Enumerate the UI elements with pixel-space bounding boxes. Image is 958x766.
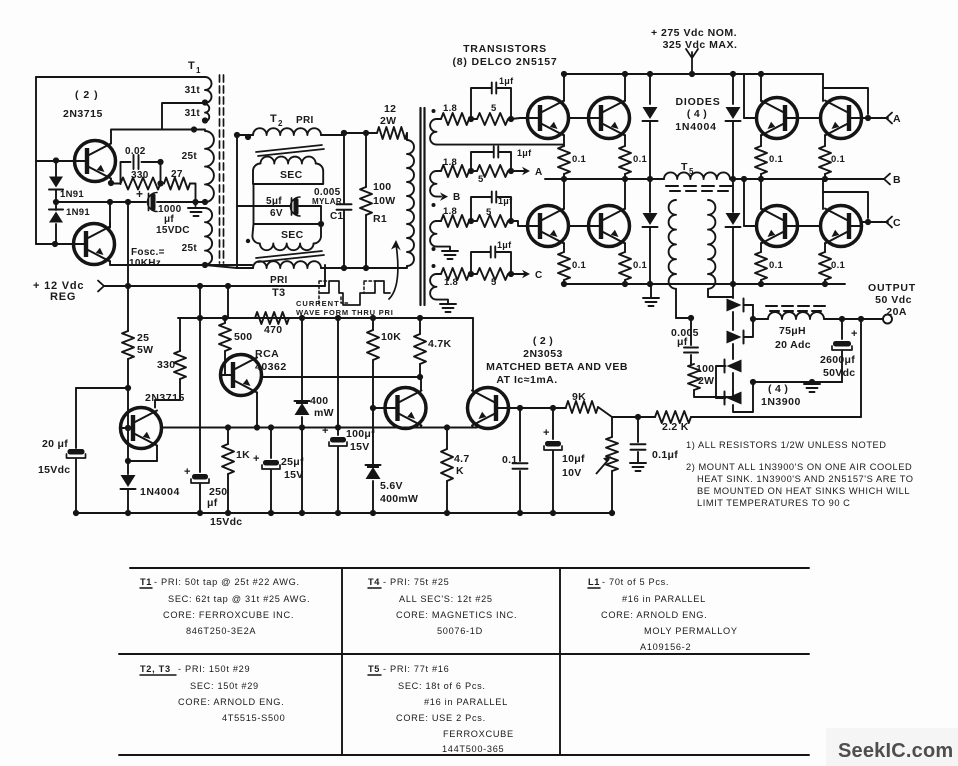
svg-text:ALL SEC'S: 12t #25: ALL SEC'S: 12t #25 [399,594,493,604]
svg-text:2.2 K: 2.2 K [662,421,689,433]
svg-text:K: K [456,465,464,477]
svg-text:0.1: 0.1 [831,260,846,271]
svg-text:+: + [136,187,143,201]
svg-text:SeekIC.com: SeekIC.com [838,740,953,762]
svg-text:12: 12 [384,103,396,115]
svg-text:0.1: 0.1 [572,260,587,271]
svg-text:T3: T3 [272,287,285,299]
svg-text:C: C [893,217,901,229]
svg-text:CURRENT: CURRENT [296,299,340,308]
svg-text:(8) DELCO 2N5157: (8) DELCO 2N5157 [453,56,558,68]
svg-text:5: 5 [486,207,492,218]
svg-text:1N4004: 1N4004 [140,486,180,498]
svg-text:CORE: USE 2 Pcs.: CORE: USE 2 Pcs. [396,713,486,723]
svg-text:0.1: 0.1 [769,154,784,165]
svg-text:( 4 ): ( 4 ) [768,383,788,395]
svg-text:- PRI: 75t #25: - PRI: 75t #25 [383,577,450,587]
svg-text:2W: 2W [380,115,396,127]
svg-text:AT Ic≈1mA.: AT Ic≈1mA. [496,374,557,386]
svg-text:0.1: 0.1 [769,260,784,271]
svg-text:mW: mW [314,407,334,419]
svg-text:1: 1 [196,66,201,75]
svg-text:+: + [322,425,329,437]
svg-text:2600μf: 2600μf [820,354,855,366]
svg-text:+: + [184,466,191,478]
svg-text:0.1μf: 0.1μf [652,449,678,461]
svg-text:10W: 10W [373,195,396,207]
svg-text:25: 25 [137,332,149,344]
svg-text:CORE: ARNOLD ENG.: CORE: ARNOLD ENG. [601,610,707,620]
svg-text:MYLAR: MYLAR [312,197,342,206]
svg-text:2N3053: 2N3053 [523,348,563,360]
svg-text:2W: 2W [698,375,714,387]
svg-text:TRANSISTORS: TRANSISTORS [463,43,547,55]
svg-text:9K: 9K [572,391,586,403]
svg-text:A: A [535,167,543,178]
svg-text:15VDC: 15VDC [156,225,190,236]
svg-text:15Vdc: 15Vdc [38,464,70,476]
svg-text:2N3715: 2N3715 [145,392,185,404]
svg-text:27: 27 [171,169,183,180]
svg-text:T4: T4 [368,577,380,587]
svg-text:1.8: 1.8 [443,157,457,168]
svg-text:SEC: SEC [281,229,304,241]
svg-text:A109156-2: A109156-2 [640,642,691,652]
svg-text:- PRI: 77t #16: - PRI: 77t #16 [383,664,450,674]
svg-text:+: + [253,453,260,465]
svg-text:1) ALL RESISTORS 1/2W UNLESS: 1) ALL RESISTORS 1/2W UNLESS NOTED [686,440,887,450]
svg-text:#16 in PARALLEL: #16 in PARALLEL [622,594,706,604]
svg-text:T5: T5 [368,664,380,674]
svg-text:1N4004: 1N4004 [675,121,717,133]
svg-text:BE MOUNTED ON HEAT SINKS WHICH: BE MOUNTED ON HEAT SINKS WHICH WILL [697,486,910,496]
svg-text:( 4 ): ( 4 ) [687,108,707,120]
svg-text:400mW: 400mW [380,493,418,505]
svg-text:MATCHED BETA AND VEB: MATCHED BETA AND VEB [486,361,628,373]
svg-text:T: T [188,60,195,72]
svg-text:5: 5 [491,277,497,288]
svg-text:CORE: MAGNETICS INC.: CORE: MAGNETICS INC. [396,610,517,620]
svg-text:100μf: 100μf [346,428,375,440]
svg-text:10μf: 10μf [562,453,585,465]
svg-text:REG: REG [50,291,76,303]
svg-text:T: T [270,113,277,125]
svg-text:4T5515-S500: 4T5515-S500 [222,713,285,723]
svg-text:μf: μf [207,497,218,509]
svg-text:0.1: 0.1 [502,454,518,466]
svg-text:B: B [893,174,901,186]
svg-text:50 Vdc: 50 Vdc [875,294,912,306]
svg-text:20 Adc: 20 Adc [775,339,811,351]
svg-text:325 Vdc MAX.: 325 Vdc MAX. [663,39,738,51]
svg-text:25μf: 25μf [281,456,304,468]
svg-text:T2, T3: T2, T3 [140,664,171,674]
svg-text:#16 in PARALLEL: #16 in PARALLEL [424,697,508,707]
svg-text:( 2 ): ( 2 ) [533,335,553,347]
svg-text:5: 5 [491,103,497,114]
svg-text:5: 5 [478,174,484,185]
svg-text:20A: 20A [886,306,907,318]
svg-text:1μf: 1μf [499,76,514,86]
svg-text:1N91: 1N91 [60,189,84,200]
svg-text:DIODES: DIODES [675,96,720,108]
svg-text:T: T [681,161,688,173]
svg-text:R1: R1 [373,213,387,225]
svg-text:470: 470 [264,324,282,336]
svg-text:1N3900: 1N3900 [761,396,801,408]
svg-text:100: 100 [373,181,391,193]
svg-text:4.7K: 4.7K [428,338,451,350]
svg-text:10K: 10K [381,331,401,343]
svg-text:15Vdc: 15Vdc [210,516,242,528]
svg-text:T1: T1 [140,577,152,587]
svg-text:CORE: FERROXCUBE INC.: CORE: FERROXCUBE INC. [163,610,294,620]
svg-text:20 μf: 20 μf [42,438,68,450]
svg-text:+ 275 Vdc NOM.: + 275 Vdc NOM. [651,27,737,39]
svg-text:25t: 25t [182,243,198,254]
svg-text:10KHz: 10KHz [129,258,161,269]
svg-text:2) MOUNT ALL 1N3900'S ON ONE: 2) MOUNT ALL 1N3900'S ON ONE AIR COOLED [686,462,912,472]
svg-text:4.7: 4.7 [454,453,470,465]
svg-text:A: A [893,113,901,125]
svg-text:5W: 5W [137,344,153,356]
svg-text:1.8: 1.8 [444,277,458,288]
svg-text:1μf: 1μf [497,240,512,250]
svg-text:Fosc.=: Fosc.= [131,247,165,258]
svg-text:WAVE FORM THRU PRI: WAVE FORM THRU PRI [296,308,394,317]
svg-text:LIMIT TEMPERATURES TO 90 C: LIMIT TEMPERATURES TO 90 C [697,498,850,508]
svg-text:L1: L1 [588,577,600,587]
svg-text:10V: 10V [562,467,582,479]
svg-text:0.1: 0.1 [633,260,648,271]
svg-text:C1: C1 [330,211,344,222]
svg-text:μf: μf [164,214,174,225]
svg-text:1.8: 1.8 [443,103,457,114]
svg-text:5.6V: 5.6V [380,480,403,492]
svg-text:330: 330 [131,170,149,181]
svg-text:FERROXCUBE: FERROXCUBE [443,729,514,739]
svg-text:SEC: 62t tap @ 31t #25 AWG.: SEC: 62t tap @ 31t #25 AWG. [168,594,310,604]
svg-text:MOLY PERMALLOY: MOLY PERMALLOY [644,626,738,636]
svg-text:+: + [851,328,858,340]
svg-text:- 70t of 5 Pcs.: - 70t of 5 Pcs. [602,577,669,587]
svg-text:HEAT SINK. 1N3900'S AND 2N5157: HEAT SINK. 1N3900'S AND 2N5157'S ARE TO [697,474,914,484]
svg-text:2: 2 [278,119,283,128]
svg-text:0.1: 0.1 [831,154,846,165]
svg-text:31t: 31t [185,108,201,119]
svg-text:( 2 ): ( 2 ) [75,89,99,101]
svg-text:- PRI: 50t tap @ 25t #22 AW: - PRI: 50t tap @ 25t #22 AWG. [154,577,300,587]
svg-text:SEC: 18t of 6 Pcs.: SEC: 18t of 6 Pcs. [398,681,486,691]
svg-text:PRI: PRI [296,115,314,126]
svg-text:0.1: 0.1 [633,154,648,165]
svg-text:144T500-365: 144T500-365 [442,744,504,754]
svg-text:6V: 6V [270,208,283,219]
svg-text:CORE: ARNOLD ENG.: CORE: ARNOLD ENG. [178,697,284,707]
svg-text:SEC: SEC [280,169,303,181]
svg-text:RCA: RCA [255,348,279,360]
svg-text:SEC: 150t #29: SEC: 150t #29 [190,681,259,691]
svg-text:C: C [535,270,543,281]
svg-text:2N3715: 2N3715 [63,108,103,120]
svg-text:400: 400 [310,395,328,407]
svg-text:5: 5 [689,167,694,176]
svg-text:PRI: PRI [270,275,288,286]
svg-text:1N91: 1N91 [66,207,90,218]
svg-text:0.1: 0.1 [572,154,587,165]
svg-text:5μf: 5μf [266,196,282,207]
svg-text:+: + [543,427,550,439]
svg-text:330: 330 [157,359,175,371]
svg-text:B: B [453,192,461,203]
svg-text:25t: 25t [182,151,198,162]
svg-text:1.8: 1.8 [443,206,457,217]
svg-text:31t: 31t [185,85,201,96]
svg-text:1μf: 1μf [498,196,513,206]
svg-text:100: 100 [696,363,714,375]
svg-text:μf: μf [677,336,688,348]
svg-text:OUTPUT: OUTPUT [868,282,916,294]
svg-text:50Vdc: 50Vdc [823,367,855,379]
svg-text:50076-1D: 50076-1D [437,626,483,636]
svg-text:1K: 1K [236,449,250,461]
svg-text:- PRI: 150t #29: - PRI: 150t #29 [178,664,250,674]
svg-text:1μf: 1μf [517,148,532,158]
svg-text:500: 500 [234,331,252,343]
svg-text:846T250-3E2A: 846T250-3E2A [186,626,256,636]
svg-text:15V: 15V [350,441,370,453]
svg-text:75μH: 75μH [779,325,806,337]
svg-text:0.02: 0.02 [125,146,146,157]
svg-text:15V: 15V [284,469,304,481]
